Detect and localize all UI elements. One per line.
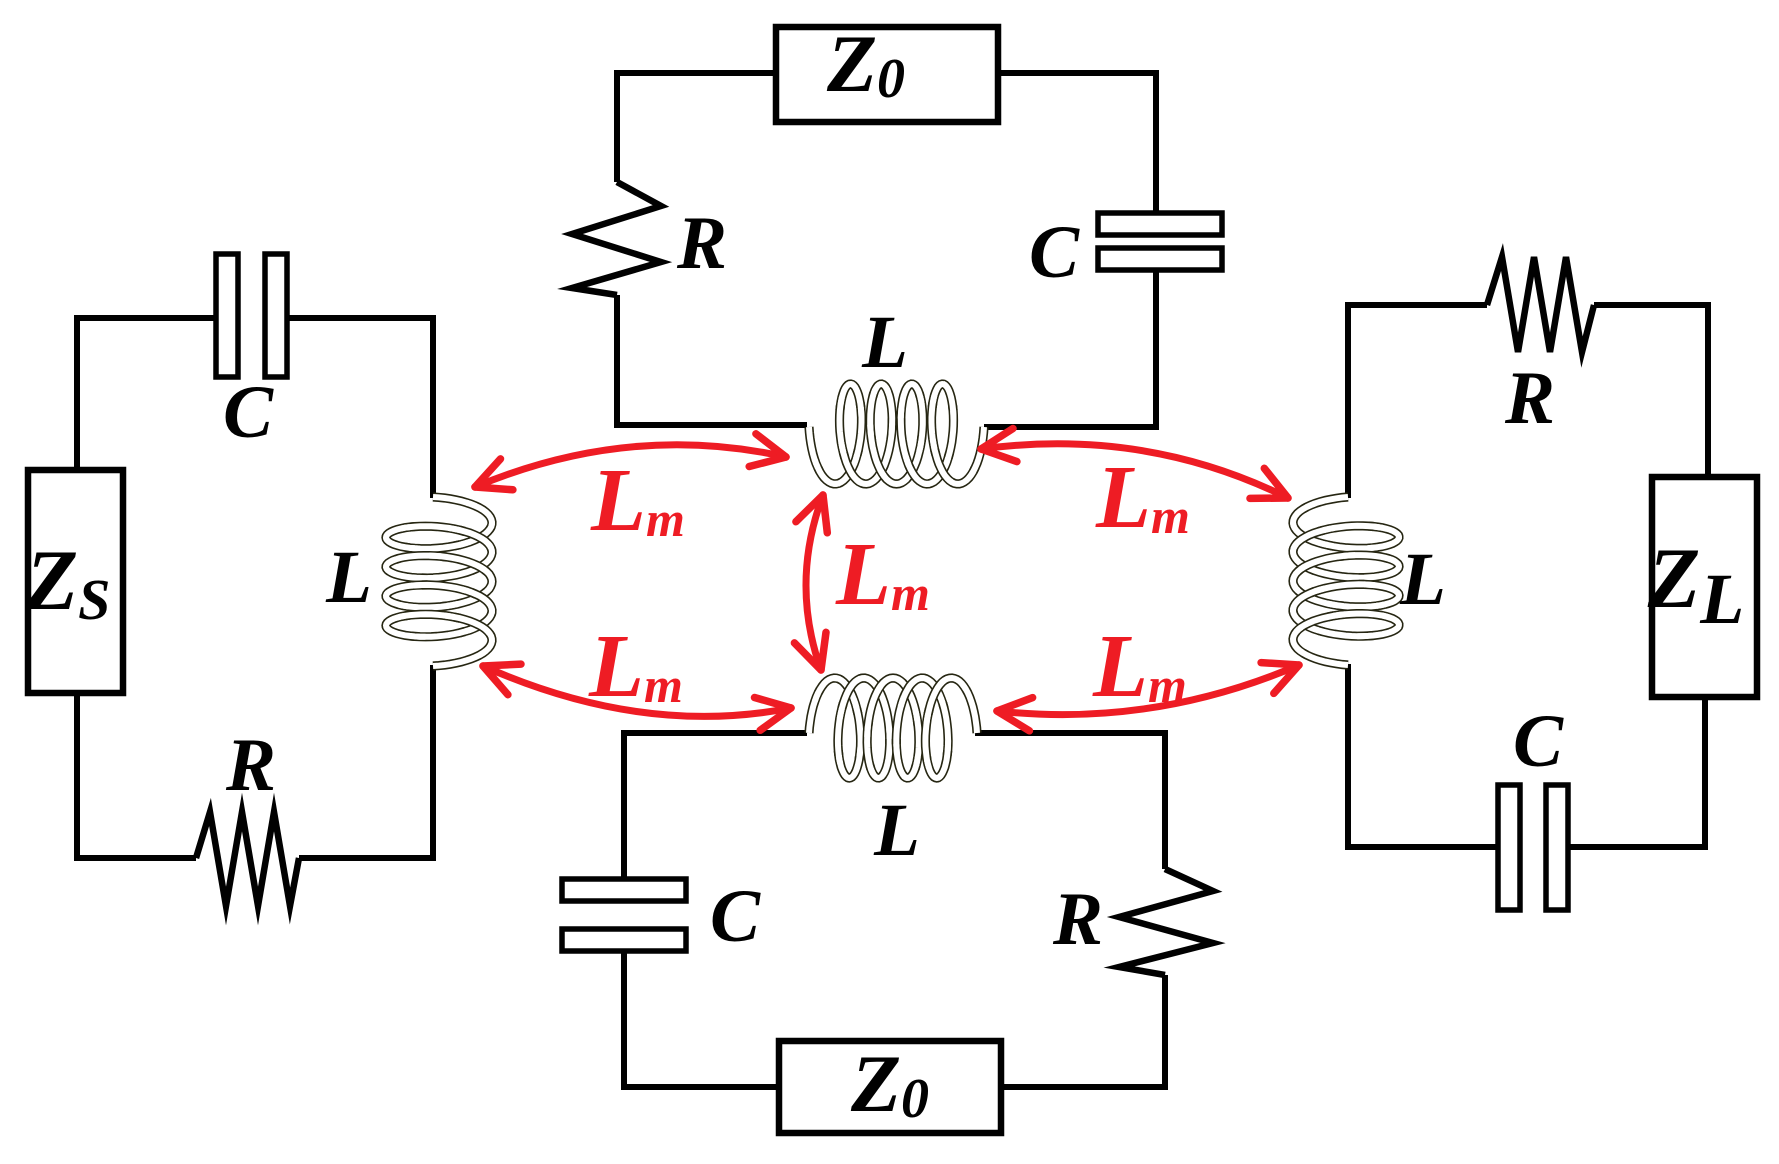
resistor R (top loop) [572,182,661,295]
wire top-loop right lower [1153,270,1159,430]
wire bottom-loop right upper [1162,730,1168,869]
wire right-loop top-right segment [1594,302,1708,308]
wire top-loop bottom-right segment [984,424,1159,430]
wire left-loop right lower [430,665,436,861]
wire right-loop left lower [1345,664,1351,850]
wire left-loop bottom-right segment [299,855,433,861]
svg-text:L: L [873,789,920,872]
resistor R (left loop) [196,812,299,906]
capacitor C (bottom loop, left) [562,879,686,951]
impedance box Zs (source) [28,470,123,693]
wire right-loop top-left segment [1348,302,1487,308]
wire bottom-loop left upper [621,730,627,879]
wire left-loop top-right segment [287,315,433,321]
svg-text:L: L [325,536,372,619]
svg-text:L: L [861,301,908,384]
inductor L (right loop) [1293,497,1399,665]
impedance box Z0 (top port) [776,27,998,122]
wire top-loop left lower [614,295,620,428]
wire right-loop right lower [1702,697,1708,850]
wire left-loop right upper [430,315,436,498]
wire right-loop bottom-left segment [1348,844,1498,850]
capacitor C (top loop, right) [1098,213,1222,270]
svg-text:C: C [223,371,274,454]
wire top-loop bottom-left segment [614,422,807,428]
svg-text:C: C [710,875,761,958]
wire top-loop top-right segment [998,70,1159,76]
wire right-loop left upper [1345,302,1351,498]
mutual inductance arrow Lm (top-right coupling) [981,429,1288,499]
svg-text:L: L [1399,538,1446,621]
capacitor C (left loop, top) [216,254,287,377]
svg-text:C: C [1513,700,1564,783]
wire bottom-loop bottom-left segment [624,1084,779,1090]
impedance box ZL (load) [1652,477,1757,697]
wire top-loop right upper [1153,70,1159,213]
wire left-loop left upper [74,315,80,470]
wire bottom-loop top-left segment [624,730,807,736]
inductor L (bottom loop) [809,678,977,778]
resistor R (right loop) [1487,257,1594,352]
wire bottom-loop right lower [1162,975,1168,1090]
svg-text:R: R [1052,878,1103,961]
svg-text:R: R [676,202,727,285]
svg-text:R: R [1504,357,1555,440]
inductor L (left loop) [386,497,492,666]
wire right-loop right upper [1705,302,1711,477]
inductor L (top loop) [809,384,984,484]
wire left-loop top-left segment [77,315,216,321]
wire top-loop left upper [614,70,620,182]
wire bottom-loop bottom-right segment [1001,1084,1165,1090]
impedance box Z0 (bottom port) [779,1041,1001,1133]
wire bottom-loop top-right segment [975,730,1165,736]
wire bottom-loop left lower [621,951,627,1090]
svg-text:R: R [225,724,276,807]
mutual inductance arrow Lm (left-top coupling) [475,434,786,490]
wire left-loop left lower [74,693,80,861]
capacitor C (right loop, bottom) [1498,785,1568,910]
svg-text:C: C [1029,211,1080,294]
wire top-loop top-left segment [617,70,776,76]
mutual inductance arrow Lm (top-bottom coupling) [794,495,827,670]
resistor R (bottom loop) [1119,869,1213,975]
wire left-loop bottom-left segment [77,855,196,861]
mutual inductance arrow Lm (bottom-right coupling) [997,663,1299,731]
mutual inductance arrow Lm (left-bottom coupling) [483,664,791,730]
wire right-loop bottom-right segment [1568,844,1705,850]
